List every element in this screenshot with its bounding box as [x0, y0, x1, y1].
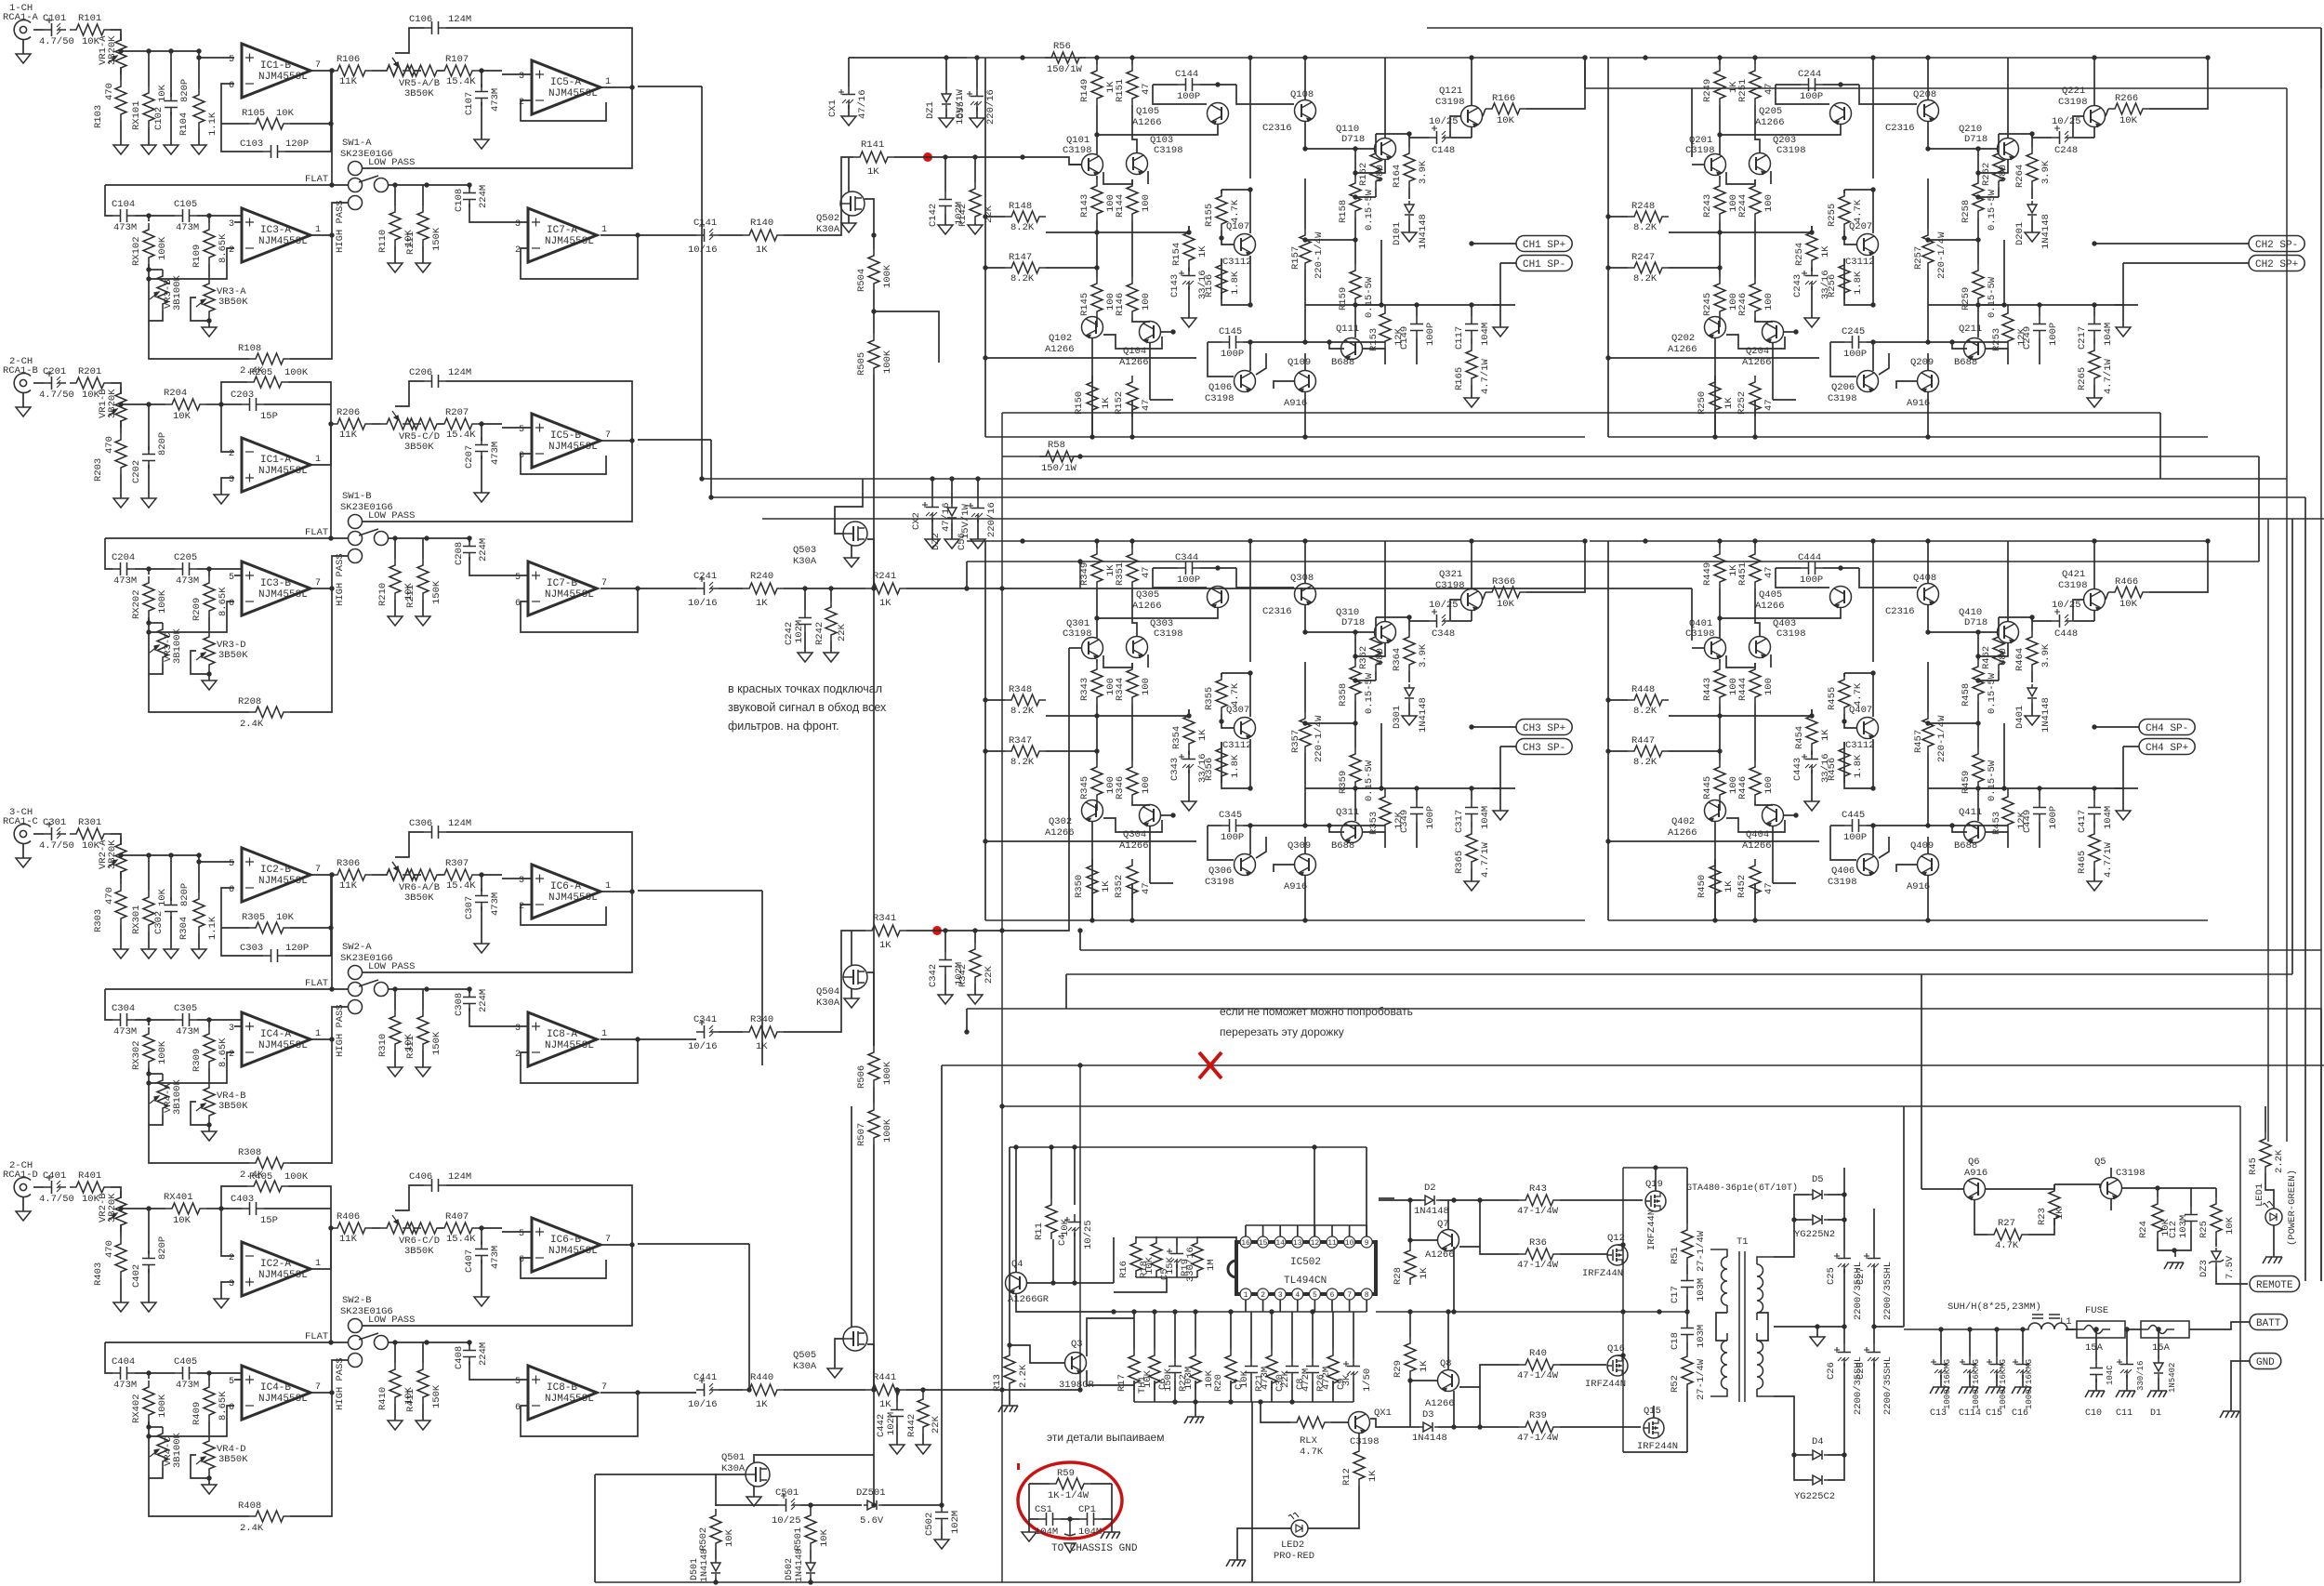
capacitor C243 33/16	[1805, 268, 1818, 290]
resistor R36 47-1/4W	[1459, 1247, 1519, 1254]
wire	[33, 1186, 44, 1188]
resistor R405 100K	[221, 1186, 247, 1209]
svg-text:RLX: RLX	[1300, 1435, 1318, 1447]
svg-text:звуковой сигнал в обход всех: звуковой сигнал в обход всех	[728, 701, 887, 714]
svg-text:C345: C345	[1219, 810, 1242, 821]
svg-text:C317: C317	[1454, 810, 1465, 833]
resistor R305 10K	[249, 922, 290, 933]
svg-text:15.4K: 15.4K	[446, 76, 476, 87]
resistor R210 10K	[394, 538, 396, 559]
wire	[719, 234, 743, 236]
svg-text:R364: R364	[1392, 648, 1403, 671]
svg-text:C13: C13	[1930, 1408, 1947, 1419]
wire	[479, 423, 502, 425]
svg-text:FUSE: FUSE	[2085, 1305, 2108, 1316]
svg-text:1: 1	[605, 77, 611, 87]
svg-text:R157: R157	[1290, 246, 1301, 270]
resistor R103 470	[115, 80, 126, 121]
svg-text:DZ1: DZ1	[925, 101, 936, 119]
resistor R29 1K	[1409, 1312, 1411, 1337]
svg-text:R103: R103	[93, 105, 104, 128]
svg-text:11K: 11K	[339, 1234, 358, 1245]
svg-text:473M: 473M	[176, 575, 199, 587]
svg-text:D3: D3	[1422, 1409, 1434, 1421]
resistor R241 1K	[865, 583, 906, 594]
wire	[1719, 220, 1721, 245]
wire bias box	[1221, 189, 1250, 191]
high pass filter wire	[332, 556, 348, 588]
resistor R150 1K	[1087, 376, 1098, 416]
svg-text:3.9K: 3.9K	[1418, 160, 1429, 184]
svg-text:в красных точках подключал: в красных точках подключал	[728, 682, 882, 695]
svg-text:1K: 1K	[1197, 245, 1208, 258]
svg-text:R455: R455	[1827, 687, 1838, 710]
svg-text:473M: 473M	[490, 88, 501, 112]
feedback IC3	[149, 248, 234, 279]
resistor R501 10K	[810, 1505, 812, 1509]
svg-text:IC3-A: IC3-A	[260, 225, 291, 236]
wire down	[1714, 338, 1716, 437]
svg-text:CH3 SP-: CH3 SP-	[1523, 743, 1565, 754]
resistor R111 150K	[422, 185, 424, 205]
svg-text:7.5V: 7.5V	[2225, 1255, 2236, 1279]
svg-text:R250: R250	[1697, 391, 1708, 415]
svg-text:470: 470	[104, 83, 115, 100]
svg-text:15P: 15P	[260, 411, 278, 422]
svg-text:C441: C441	[693, 1372, 717, 1383]
resistor RX202 100K	[148, 569, 150, 575]
ground	[1188, 267, 1190, 271]
svg-text:120P: 120P	[285, 943, 309, 954]
transistor Q401 C3198	[1705, 638, 1726, 659]
tag GND	[2250, 1354, 2281, 1369]
svg-text:100: 100	[1763, 293, 1775, 311]
resistor RX401 10K	[165, 1203, 206, 1214]
svg-text:224M: 224M	[478, 989, 489, 1012]
wire	[1208, 825, 1221, 826]
svg-text:D502: D502	[785, 1558, 795, 1580]
wire feed CH4	[1691, 588, 1693, 641]
svg-text:R18: R18	[1139, 1261, 1150, 1278]
svg-text:FLAT: FLAT	[305, 527, 328, 538]
svg-text:перерезать эту дорожку: перерезать эту дорожку	[1220, 1025, 1344, 1038]
wire	[1776, 84, 1801, 86]
svg-text:R344: R344	[1115, 678, 1126, 701]
wire	[1872, 826, 1874, 854]
wire to output node	[1928, 341, 2008, 343]
svg-text:124M: 124M	[448, 818, 471, 829]
resistor R162 680	[1375, 134, 1377, 147]
capacitor C208 224M	[469, 538, 470, 542]
zener DZ2 15V/1W	[947, 504, 957, 522]
svg-text:47: 47	[1763, 399, 1775, 411]
svg-text:224M: 224M	[478, 185, 489, 208]
svg-text:LED2: LED2	[1281, 1540, 1304, 1551]
feedback IC7	[601, 1392, 638, 1394]
svg-text:6: 6	[515, 1403, 521, 1413]
svg-text:100P: 100P	[1425, 323, 1436, 346]
wire bus	[762, 518, 2324, 520]
svg-text:R347: R347	[1009, 735, 1032, 747]
transistor Q121 C3198	[1461, 106, 1483, 127]
svg-text:CH4 SP+: CH4 SP+	[2146, 743, 2188, 754]
svg-text:R457: R457	[1913, 730, 1924, 753]
resistor R51 27-1/4W	[1686, 1168, 1688, 1223]
ground	[170, 112, 172, 145]
svg-text:2: 2	[229, 449, 234, 459]
svg-text:R365: R365	[1454, 851, 1465, 874]
svg-text:(POWER-GREEN): (POWER-GREEN)	[2287, 1170, 2298, 1246]
svg-text:TO CHASSIS GND: TO CHASSIS GND	[1051, 1543, 1138, 1554]
svg-text:8.2K: 8.2K	[1633, 273, 1657, 284]
svg-text:A1266: A1266	[1755, 117, 1785, 128]
svg-text:47/16: 47/16	[941, 502, 952, 532]
svg-text:9: 9	[1365, 1239, 1369, 1248]
svg-text:680: 680	[1375, 165, 1386, 182]
svg-text:R39: R39	[1529, 1410, 1547, 1421]
wire ic7 out	[638, 234, 696, 236]
ground	[394, 1051, 396, 1067]
svg-text:10K: 10K	[1060, 1218, 1071, 1236]
svg-text:NJM4558L: NJM4558L	[258, 236, 308, 247]
ground	[422, 1051, 424, 1067]
wire	[135, 1019, 175, 1021]
svg-text:100K: 100K	[284, 1171, 309, 1183]
resistor R254 1K	[1811, 226, 1813, 232]
resistor R365 4.7/1W	[1471, 822, 1472, 827]
svg-text:CH3 SP+: CH3 SP+	[1523, 723, 1565, 734]
output node wires	[1305, 722, 1355, 724]
svg-text:C3198: C3198	[1828, 393, 1857, 404]
transistor QX1 C3198	[1349, 1412, 1370, 1434]
svg-text:7: 7	[315, 1382, 321, 1393]
wire base	[1027, 1282, 1114, 1284]
feedback IC7	[601, 234, 638, 236]
op-amp IC5-B	[532, 414, 601, 468]
capacitor C306 124M feedback	[424, 826, 446, 839]
svg-text:R448: R448	[1631, 684, 1655, 695]
svg-text:10K: 10K	[276, 912, 295, 923]
wire out	[310, 874, 332, 876]
svg-text:6: 6	[519, 1255, 524, 1265]
capacitor C302 820P	[170, 855, 172, 901]
resistor R26 3K	[1332, 1312, 1334, 1349]
svg-text:5: 5	[515, 573, 521, 583]
svg-text:R166: R166	[1492, 93, 1515, 104]
capacitor C106 124M feedback	[424, 21, 446, 34]
wire	[479, 70, 502, 72]
svg-text:11K: 11K	[339, 76, 358, 87]
svg-text:A916: A916	[1907, 881, 1930, 892]
transistor Q7 A1266	[1438, 1230, 1459, 1251]
svg-text:R348: R348	[1009, 684, 1032, 695]
supply rail	[1590, 540, 2208, 542]
wire low pass	[363, 891, 632, 972]
capacitor C249 100P	[2033, 316, 2046, 338]
feedback IC3	[149, 1406, 234, 1436]
svg-text:R266: R266	[2115, 93, 2138, 104]
resistor R258 0.15-5W	[1977, 149, 1979, 177]
capacitor C502 102M	[941, 1505, 943, 1508]
capacitor C17 103M	[1686, 1264, 1688, 1274]
svg-text:10/25: 10/25	[772, 1515, 801, 1527]
resistor R208 2.4K	[149, 674, 249, 712]
svg-text:R306: R306	[337, 858, 360, 869]
output tag CH1 SP-	[1516, 256, 1572, 271]
svg-text:R354: R354	[1171, 726, 1182, 749]
svg-text:R249: R249	[1702, 79, 1713, 102]
svg-text:C55: C55	[956, 101, 967, 119]
high pass filter wire	[332, 1360, 348, 1393]
svg-text:R111: R111	[405, 231, 416, 255]
svg-text:R207: R207	[445, 407, 469, 418]
svg-text:C501: C501	[775, 1487, 799, 1499]
svg-text:D401: D401	[2014, 706, 2026, 729]
svg-text:8: 8	[1365, 1291, 1369, 1300]
svg-text:15A: 15A	[2085, 1342, 2104, 1354]
svg-text:3.9K: 3.9K	[2040, 160, 2052, 184]
wire	[502, 878, 532, 879]
svg-text:R22: R22	[1178, 1374, 1189, 1392]
svg-text:K30A: K30A	[721, 1463, 746, 1474]
wire	[197, 568, 242, 570]
svg-text:K30A: K30A	[793, 1361, 817, 1372]
mosfet Q16 IRFZ44N	[1607, 1355, 1628, 1376]
svg-text:1: 1	[315, 225, 321, 235]
resistor R308 2.4K	[149, 1125, 249, 1163]
svg-text:100P: 100P	[1843, 349, 1867, 360]
capacitor C401 4.7/50	[44, 1181, 66, 1194]
svg-text:6: 6	[229, 885, 234, 895]
svg-text:100P: 100P	[1425, 806, 1436, 829]
resistor R441 1K	[865, 1384, 906, 1395]
svg-text:Q407: Q407	[1849, 705, 1872, 716]
pot VR4-C 3B100K	[148, 1421, 150, 1429]
svg-text:A1266: A1266	[1132, 601, 1162, 612]
svg-text:104M: 104M	[1480, 323, 1491, 346]
wire +in gnd	[221, 478, 234, 495]
mosfet Q12 IRFZ44N	[1607, 1245, 1628, 1265]
svg-text:GND: GND	[2256, 1357, 2275, 1368]
transistor Q409 A916	[1918, 854, 1939, 876]
resistor R23 1K	[2049, 1184, 2060, 1225]
svg-text:224M: 224M	[478, 538, 489, 562]
resistor R25 10K	[2211, 1197, 2222, 1238]
svg-text:6: 6	[519, 451, 524, 461]
ground	[148, 465, 150, 498]
wire	[502, 427, 532, 429]
wire	[33, 382, 44, 384]
wire	[638, 890, 762, 892]
resistor R403 470	[115, 1237, 126, 1278]
resistor R507 100K	[873, 1087, 875, 1104]
long gate bias line	[873, 375, 875, 1046]
svg-text:Q402: Q402	[1671, 816, 1695, 827]
svg-text:C2316: C2316	[1262, 606, 1292, 617]
svg-text:C202: C202	[131, 460, 142, 483]
svg-text:R155: R155	[1204, 204, 1215, 227]
svg-text:3: 3	[515, 1024, 521, 1034]
capacitor C245 100P	[1844, 336, 1867, 349]
ground	[941, 1527, 943, 1540]
resistor R341 1K	[865, 925, 906, 936]
resistor R149 1K	[1096, 58, 1098, 64]
svg-text:R407: R407	[445, 1211, 469, 1223]
svg-text:C3198: C3198	[2058, 580, 2088, 591]
resistor R101 10K	[70, 24, 111, 35]
svg-text:224M: 224M	[478, 1342, 489, 1366]
svg-text:3: 3	[519, 72, 524, 82]
wire node	[120, 67, 122, 80]
svg-text:R452: R452	[1736, 875, 1748, 898]
svg-text:10K: 10K	[2225, 1216, 2236, 1235]
svg-text:1N4148: 1N4148	[795, 1549, 805, 1582]
resistor R19 1M	[1196, 1236, 1198, 1237]
pot VR3-C 3B100K	[148, 617, 150, 625]
svg-text:C3198: C3198	[1154, 145, 1183, 156]
svg-text:R301: R301	[78, 817, 101, 828]
svg-text:R359: R359	[1338, 771, 1349, 794]
svg-text:R505: R505	[856, 352, 867, 376]
svg-text:4.7/50: 4.7/50	[39, 840, 74, 852]
svg-text:11: 11	[1327, 1239, 1337, 1248]
svg-text:RCA1-A: RCA1-A	[3, 12, 39, 23]
wire pot	[191, 1102, 209, 1125]
svg-text:47-1/4W: 47-1/4W	[1517, 1433, 1559, 1444]
output tag CH4 SP-	[2139, 720, 2195, 735]
svg-text:Q204: Q204	[1746, 346, 1769, 357]
svg-text:6: 6	[229, 599, 234, 609]
resistor R143 100	[1091, 179, 1103, 220]
resistor R211 150K	[422, 538, 424, 559]
svg-text:Q102: Q102	[1049, 333, 1072, 344]
transistor Q211 B688	[1964, 338, 1986, 360]
capacitor CP1 104M	[1079, 1513, 1102, 1526]
svg-text:R203: R203	[93, 458, 104, 482]
svg-text:22K: 22K	[984, 205, 995, 223]
op-amp IC4-B	[242, 1366, 310, 1420]
bottom rail	[595, 1581, 2240, 1583]
resistor R52 27-1/4W	[1686, 1342, 1688, 1350]
wire ic7 out	[638, 1038, 696, 1040]
svg-text:NJM4558L: NJM4558L	[545, 236, 594, 247]
svg-text:RX202: RX202	[131, 589, 142, 619]
svg-text:1M: 1M	[1206, 1259, 1217, 1271]
capacitor C144 100P	[1178, 78, 1200, 91]
svg-text:IRF244N: IRF244N	[1637, 1441, 1678, 1452]
svg-text:220-1/4W: 220-1/4W	[1314, 231, 1325, 279]
svg-text:2: 2	[229, 245, 234, 256]
svg-text:IC7-A: IC7-A	[547, 225, 577, 236]
wire to +in	[199, 57, 234, 59]
capacitor CX1 47/16	[842, 86, 855, 109]
pot VR5-A/B 3B50K	[380, 65, 421, 76]
svg-text:7: 7	[315, 60, 321, 71]
svg-text:1K: 1K	[756, 245, 768, 256]
fet Q505 K30A	[843, 1327, 867, 1351]
wire	[906, 1389, 1080, 1391]
svg-text:R304: R304	[178, 917, 190, 940]
svg-text:R406: R406	[337, 1211, 360, 1223]
svg-text:1K: 1K	[1101, 397, 1112, 409]
capacitor C11 330/16	[2126, 1329, 2128, 1356]
resistor R307 15.4K	[438, 869, 479, 880]
wire	[1719, 588, 1721, 638]
ground	[2122, 321, 2124, 327]
capacitor C30 472M	[1291, 1312, 1293, 1358]
svg-text:R11: R11	[1034, 1223, 1045, 1240]
resistor R243 100	[1714, 179, 1725, 220]
thermistor TH1 150K	[1154, 1312, 1155, 1349]
resistor R356 1.8K	[1216, 742, 1227, 783]
ground	[896, 1424, 898, 1445]
transistor Q402 A1266	[1705, 800, 1726, 822]
svg-text:6: 6	[229, 81, 234, 91]
svg-text:13: 13	[1293, 1239, 1302, 1248]
svg-text:220/16: 220/16	[985, 89, 997, 125]
svg-text:R45: R45	[2248, 1157, 2259, 1175]
resistor R148 8.2K	[1005, 211, 1046, 222]
svg-text:если не поможет можно попробов: если не поможет можно попробовать	[1220, 1005, 1413, 1018]
wire ic top	[1246, 1224, 1367, 1226]
svg-text:R341: R341	[873, 913, 896, 924]
wire	[1872, 342, 1874, 371]
svg-text:Q207: Q207	[1849, 221, 1872, 232]
wire	[469, 1008, 528, 1026]
wire	[1978, 240, 2004, 305]
transistor Q3 3198GR	[1065, 1353, 1087, 1374]
wire bus	[2267, 519, 2269, 1142]
svg-text:Q305: Q305	[1136, 589, 1159, 601]
svg-text:Q206: Q206	[1831, 382, 1855, 393]
ground	[2031, 219, 2033, 232]
wire out IC3	[310, 1038, 332, 1040]
svg-text:REMOTE: REMOTE	[2256, 1280, 2293, 1291]
svg-text:3B100K: 3B100K	[172, 628, 183, 664]
svg-text:NJM4558L: NJM4558L	[545, 1394, 594, 1405]
svg-text:SUH/H(8*25,23MM): SUH/H(8*25,23MM)	[1948, 1302, 2041, 1313]
capacitor C444 100P	[1801, 562, 1823, 575]
wire	[719, 588, 743, 589]
svg-text:R444: R444	[1737, 678, 1749, 701]
svg-text:R248: R248	[1631, 201, 1655, 212]
svg-text:C9: C9	[1336, 1378, 1347, 1390]
svg-text:R26: R26	[1315, 1374, 1327, 1392]
resistor R266 10K	[2106, 109, 2108, 116]
svg-text:B688: B688	[1331, 357, 1354, 368]
svg-text:150K: 150K	[431, 1384, 442, 1408]
ground	[148, 1269, 150, 1302]
transistor Q5 C3198	[2101, 1178, 2122, 1199]
wire	[1096, 220, 1098, 245]
svg-text:1.8K: 1.8K	[1853, 754, 1864, 778]
svg-text:R101: R101	[78, 13, 101, 24]
svg-text:C4: C4	[1057, 1234, 1068, 1246]
svg-text:22K: 22K	[837, 623, 848, 641]
svg-text:NJM4558L: NJM4558L	[258, 589, 308, 601]
feedback IC7	[601, 588, 638, 589]
svg-text:5: 5	[1313, 1291, 1317, 1300]
svg-text:15.4K: 15.4K	[446, 430, 476, 441]
ground	[120, 121, 122, 145]
svg-text:C114: C114	[1959, 1408, 1981, 1419]
transistor Q210 D718	[1998, 139, 2019, 160]
svg-text:R465: R465	[2077, 851, 2088, 874]
svg-text:C3198: C3198	[2116, 1168, 2146, 1179]
svg-text:C3112: C3112	[1845, 740, 1875, 751]
fet Q504 K30A	[843, 965, 867, 989]
svg-text:C208: C208	[454, 542, 465, 565]
